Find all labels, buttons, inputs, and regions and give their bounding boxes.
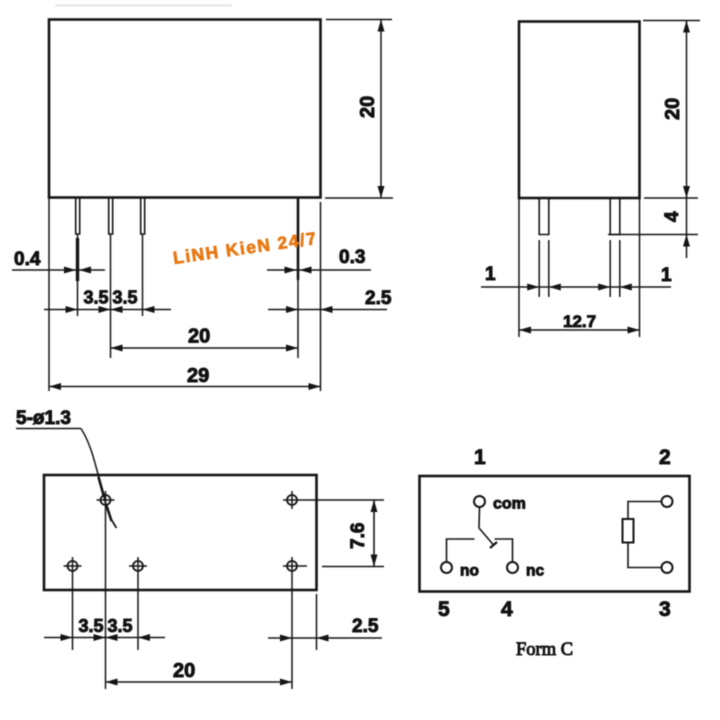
svg-text:com: com: [493, 496, 526, 513]
svg-text:LiNH KieN 24/7: LiNH KieN 24/7: [172, 228, 319, 268]
20 dimension line (bottom view): [106, 681, 293, 683]
b 20 arrow left: [106, 679, 118, 686]
0.4 leader line: [12, 269, 105, 271]
svg-text:20: 20: [357, 96, 379, 118]
hole H2 top-right (bottom view): [287, 495, 297, 505]
svg-text:4: 4: [501, 598, 513, 621]
pin 3 outline (front view): [141, 199, 145, 235]
coil bottom wire: [628, 543, 662, 568]
com terminal circle: [474, 496, 485, 507]
coil terminal 2 circle: [662, 496, 673, 507]
svg-text:29: 29: [187, 365, 209, 387]
leader line for 5-dia1.3: [16, 428, 81, 430]
3.5 3.5 dimension line (front view): [44, 309, 171, 311]
svg-text:0.3: 0.3: [339, 247, 365, 268]
coil top wire: [628, 502, 662, 520]
svg-text:1: 1: [485, 264, 496, 285]
svg-text:Form C: Form C: [516, 640, 573, 660]
schematic box: [420, 476, 690, 592]
1 arrow c: [598, 284, 610, 291]
svg-text:2.5: 2.5: [352, 616, 379, 637]
2.5 dimension line (bottom view): [268, 637, 382, 639]
svg-text:no: no: [460, 563, 479, 580]
0.3 arrow left: [285, 267, 297, 274]
0.3 arrow right: [300, 267, 312, 274]
svg-text:1: 1: [474, 446, 486, 469]
hole H5 bottom-right (bottom view): [287, 561, 297, 571]
0.4 arrow left: [64, 267, 76, 274]
pin 4 flat pin edge-on (front view right): [297, 198, 300, 280]
hole H4 bottom-middle (bottom view): [133, 561, 143, 571]
faint top artifact line: [55, 5, 232, 7]
side base extension line: [644, 197, 698, 199]
svg-text:nc: nc: [526, 563, 544, 580]
nc terminal circle: [507, 562, 518, 573]
side top extension line: [643, 20, 700, 22]
0.3 leader line: [267, 269, 371, 271]
side pin shoulder extension line: [608, 234, 698, 236]
29 arrow right: [309, 383, 321, 390]
svg-text:3.5: 3.5: [79, 616, 104, 636]
7.6 arrow top: [371, 500, 378, 512]
svg-text:2: 2: [659, 446, 671, 469]
svg-text:3: 3: [659, 598, 671, 621]
side height dimension line 20: [686, 21, 688, 259]
svg-text:3.5: 3.5: [113, 288, 138, 308]
12.7 arrow left: [519, 327, 531, 334]
3.5 arrow d: [143, 306, 155, 313]
switch contact tick: [490, 542, 497, 548]
3.5 arrow b: [99, 306, 111, 313]
relay side view body outline: [519, 22, 640, 199]
7.6 dimension line: [373, 500, 375, 567]
side arrow down at base: [683, 186, 690, 198]
coil terminal 3 circle: [662, 562, 673, 573]
3.5 arrow a: [66, 306, 78, 313]
pin 4 centerline extension: [297, 280, 299, 358]
svg-text:5: 5: [438, 598, 450, 621]
bottom view right edge extension down: [316, 594, 318, 650]
bottom-right extension line at body base (front view): [325, 197, 393, 199]
b 2.5 arrow left: [280, 635, 292, 642]
svg-text:4: 4: [662, 211, 683, 222]
relay front view body outline: [49, 20, 321, 198]
pin 1 outline (front view): [76, 199, 80, 235]
2.5 arrow right: [321, 306, 333, 313]
side arrow up: [683, 21, 690, 33]
side right edge extension down: [639, 198, 641, 337]
svg-text:7.6: 7.6: [348, 523, 369, 549]
12.7 dimension line: [519, 329, 640, 331]
H5 extension to right: [322, 566, 384, 568]
pin 1 thick section for 0.4 dim: [76, 238, 79, 281]
switch blade: [479, 528, 494, 546]
side arrow up at shoulder: [683, 235, 690, 247]
29 arrow left: [49, 383, 61, 390]
b 2.5 arrow right: [317, 635, 329, 642]
no terminal circle: [441, 562, 452, 573]
svg-text:0.4: 0.4: [14, 249, 41, 270]
3.5 3.5 dimension line (bottom view): [44, 637, 165, 639]
right body edge extension line: [320, 202, 322, 391]
pin 3 centerline extension: [142, 234, 144, 316]
2.5 dimension line (front view): [268, 309, 387, 311]
7.6 arrow bottom: [371, 555, 378, 567]
svg-text:3.5: 3.5: [84, 288, 109, 308]
nc branch wire: [495, 539, 513, 562]
svg-text:5-ø1.3: 5-ø1.3: [16, 408, 71, 429]
b 3.5 arrow b: [94, 634, 106, 641]
1 arrow a: [527, 284, 539, 291]
b 3.5 arrow d: [138, 634, 150, 641]
svg-text:3.5: 3.5: [108, 616, 133, 636]
pin 1 centerline extension: [77, 234, 79, 316]
hole H3 bottom-left (bottom view): [68, 561, 78, 571]
pin 2 centerline extension: [110, 234, 112, 358]
top extension line for height dim (front view): [326, 19, 392, 21]
12.7 arrow right: [628, 327, 640, 334]
coil element rectangle: [623, 519, 634, 543]
b 20 arrow right: [280, 679, 292, 686]
svg-text:1: 1: [661, 265, 672, 286]
svg-text:20: 20: [173, 660, 195, 682]
3.5 arrow c: [111, 306, 123, 313]
svg-text:20: 20: [188, 326, 210, 348]
20 dimension line (front view bottom): [111, 347, 299, 349]
svg-text:20: 20: [662, 98, 684, 120]
1 arrow d: [620, 284, 632, 291]
b 3.5 arrow c: [106, 634, 118, 641]
2.5 arrow left: [286, 306, 298, 313]
pin 2 outline (front view): [109, 199, 113, 235]
b 3.5 arrow a: [61, 634, 73, 641]
arrow up (front height top): [378, 20, 385, 32]
side pin right edge extensions: [609, 240, 611, 297]
arrow down (front height bottom): [378, 186, 385, 198]
side pin right outline: [610, 199, 620, 235]
height dimension line 20 (front view): [380, 20, 382, 199]
switch pole line: [478, 507, 481, 528]
20 arrow right: [286, 345, 298, 352]
hole H1 top (bottom view): [101, 495, 111, 505]
svg-text:12.7: 12.7: [563, 312, 596, 331]
1 dimension line (side view pins): [481, 286, 671, 288]
no branch wire: [447, 539, 475, 562]
29 dimension line (front view bottom): [49, 386, 321, 388]
bottom view body outline: [44, 475, 317, 590]
side left edge extension down: [518, 198, 520, 337]
20 arrow left: [111, 345, 123, 352]
side pin left outline: [539, 199, 549, 235]
left body edge extension line: [48, 198, 50, 391]
svg-text:2.5: 2.5: [365, 288, 392, 309]
1 arrow b: [549, 284, 561, 291]
0.4 arrow right: [79, 267, 91, 274]
side pin left edge extensions: [538, 240, 540, 297]
